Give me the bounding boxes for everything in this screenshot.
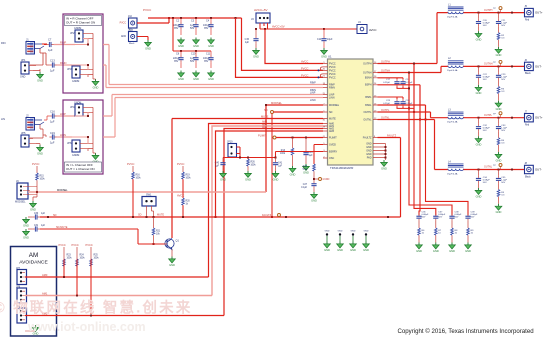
header JP6 (LINN select)	[67, 140, 93, 157]
U1 left pin stubs	[323, 64, 328, 159]
svg-text:15µH 0.4A: 15µH 0.4A	[447, 15, 458, 18]
svg-text:1µF: 1µF	[50, 120, 55, 124]
wire MUTE lower run	[40, 226, 165, 244]
svg-text:OUTPL: OUTPL	[381, 109, 390, 112]
svg-text:SD: SD	[329, 111, 333, 114]
test point OUTNH	[493, 60, 502, 66]
svg-text:www.iot-online.com: www.iot-online.com	[27, 320, 146, 334]
svg-text:OUTPH: OUTPH	[381, 61, 390, 64]
svg-text:GND: GND	[364, 231, 369, 233]
AVCC net label at R20	[177, 194, 184, 198]
PVCC label pullup AM2	[86, 243, 93, 247]
svg-text:50V: 50V	[483, 130, 487, 132]
wire MUTE from Q1 collector	[172, 115, 323, 239]
connector J5 OUT+	[525, 6, 543, 21]
ground below C3	[193, 38, 200, 48]
banana jack J11 GND input	[121, 29, 137, 46]
svg-text:JP7: JP7	[16, 267, 21, 270]
svg-text:R23: R23	[67, 255, 72, 257]
wire snubber feed 4	[426, 120, 469, 216]
svg-text:C7: C7	[48, 38, 52, 42]
svg-text:1µF: 1µF	[50, 141, 55, 145]
ground inside box R	[92, 79, 99, 89]
svg-text:GND: GND	[351, 231, 356, 233]
capacitor C22 0.68uF	[476, 66, 490, 85]
wire snubber feed 1	[419, 120, 420, 216]
header JP10 oscillator select	[227, 141, 237, 158]
resistor R7 snubber	[435, 228, 442, 243]
svg-text:R16: R16	[136, 175, 141, 177]
wire AM0 to U1	[209, 121, 324, 277]
AVCC +5V net label	[254, 8, 268, 12]
wire PLIMIT to U1	[276, 137, 323, 139]
ground inside AM box	[25, 325, 39, 335]
svg-text:AM3: AM3	[329, 130, 335, 133]
svg-text:100k: 100k	[136, 178, 142, 180]
wire LINP bundle	[103, 92, 323, 116]
capacitor C3 1uF 50V	[190, 18, 199, 35]
header JP7 AM0	[16, 267, 27, 285]
svg-text:C31: C31	[34, 225, 39, 227]
test point OUTNL	[493, 164, 502, 170]
capacitor C2 220uF 35V	[173, 18, 184, 35]
wire RINN C13 to JP3	[57, 61, 72, 65]
svg-text:LINP: LINP	[310, 92, 316, 95]
PVCC net label top	[143, 8, 152, 12]
gnd post TP4	[363, 231, 370, 252]
svg-text:FAULTZ: FAULTZ	[387, 134, 397, 137]
gnd post TP3	[350, 231, 357, 252]
op-amp U1 TPA3118D2 body	[328, 55, 374, 171]
wire PVCC to U1 pin 10	[242, 18, 324, 71]
ground below R8	[449, 243, 456, 253]
svg-text:100k: 100k	[280, 153, 286, 155]
ground below R2	[495, 47, 502, 57]
capacitor C19 1uF	[49, 131, 57, 145]
resistor R6 snubber	[418, 228, 425, 243]
wire AM1 run	[25, 292, 212, 297]
svg-text:1µF: 1µF	[48, 48, 53, 52]
svg-text:PVCC: PVCC	[32, 162, 40, 166]
svg-text:PVCC: PVCC	[72, 243, 79, 247]
svg-text:PVCC: PVCC	[177, 162, 185, 166]
wire BSPL riser	[413, 63, 415, 114]
wire AVCC to U1 pin 9	[264, 28, 323, 64]
svg-text:GNDM: GNDM	[72, 154, 79, 157]
svg-text:C13: C13	[50, 59, 55, 63]
svg-text:PLIMIT: PLIMIT	[258, 134, 267, 138]
PVCC net label at J9	[32, 162, 40, 166]
wire OUTPL filter row	[464, 114, 525, 119]
ground below C22	[475, 85, 482, 95]
U1 right pin names	[363, 62, 372, 159]
svg-text:C41: C41	[278, 163, 283, 165]
connector J6 OUT-	[525, 60, 542, 75]
wire SD riser to bottom line	[271, 114, 273, 219]
svg-text:50V: 50V	[190, 27, 195, 30]
ground below R6	[416, 243, 423, 253]
wire JP4 to LINP node	[75, 113, 89, 117]
svg-text:PVCC: PVCC	[301, 74, 309, 78]
svg-text:BSNL: BSNL	[365, 104, 372, 107]
svg-text:BSNH: BSNH	[365, 77, 372, 80]
capacitor C33 1uF	[496, 118, 508, 138]
header JP4 (LINP select)	[70, 102, 93, 117]
ground below R4	[495, 152, 502, 162]
svg-text:C40: C40	[215, 163, 220, 165]
ground below R3	[495, 101, 502, 111]
svg-text:AVCC: AVCC	[177, 194, 184, 198]
svg-text:AVCC+5V: AVCC+5V	[272, 25, 285, 29]
gnd post TP1	[324, 231, 331, 252]
resistor R24	[76, 247, 86, 295]
svg-text:SD-MUTE: SD-MUTE	[56, 226, 68, 229]
capacitor C20 0.68uF	[476, 13, 490, 32]
wire BSNL stub	[378, 105, 427, 121]
resistor R14 on GVDD	[303, 145, 323, 182]
test point GVDD	[314, 178, 330, 182]
wire OUTNH filter row	[464, 63, 525, 68]
svg-text:OUTNH: OUTNH	[363, 71, 372, 74]
svg-text:MODSEL: MODSEL	[329, 104, 340, 107]
svg-text:© 物联网在线 智慧.创未来: © 物联网在线 智慧.创未来	[0, 299, 193, 317]
wire RINP jack to C7	[44, 44, 47, 46]
capacitor C37 snubber	[433, 212, 446, 229]
capacitor C41 1uF	[273, 158, 283, 172]
svg-text:AVCC: AVCC	[301, 60, 308, 64]
capacitor C38 snubber	[449, 212, 462, 229]
wire JP6 to LINN node	[72, 136, 89, 143]
svg-text:MUTE: MUTE	[329, 117, 336, 120]
svg-text:OUT = L Channel ON: OUT = L Channel ON	[66, 167, 95, 171]
svg-text:R15: R15	[40, 176, 45, 178]
capacitor C26 on PLIMIT	[303, 138, 313, 165]
svg-text:JP6: JP6	[67, 141, 72, 145]
PVCC second row feed wire	[173, 18, 211, 52]
svg-text:SD: SD	[264, 108, 268, 112]
resistor R21	[152, 217, 161, 245]
svg-text:OUT-: OUT-	[535, 168, 542, 172]
test point OUTPL	[493, 112, 502, 118]
wire OUTNL to row4	[378, 117, 448, 170]
svg-text:Black: Black	[525, 73, 531, 75]
svg-text:OUTNH: OUTNH	[484, 63, 493, 66]
wire BSPH stub	[378, 85, 422, 121]
capacitor C4 100uF 35V	[203, 18, 214, 35]
svg-text:1µF: 1µF	[245, 41, 250, 44]
ferrite bead FB1 AVCC	[324, 20, 377, 34]
svg-text:0.22µF: 0.22µF	[383, 82, 391, 84]
svg-text:35V: 35V	[174, 27, 179, 30]
ground below C34	[475, 188, 482, 198]
ground below R7	[432, 243, 439, 253]
svg-text:C14: C14	[317, 38, 322, 41]
PVCC pin tie jogs	[318, 67, 324, 79]
svg-text:SD: SD	[53, 214, 57, 217]
svg-text:15µH 0.4A: 15µH 0.4A	[447, 121, 458, 124]
svg-text:C27: C27	[303, 184, 308, 186]
svg-text:50V: 50V	[483, 182, 487, 184]
ground below R9	[465, 243, 472, 253]
svg-text:50V: 50V	[501, 25, 505, 27]
purple option box R channel	[63, 14, 103, 93]
inductor L2 15uH	[447, 57, 464, 72]
header JP1 (input gnd)	[20, 58, 33, 79]
svg-text:LIN: LIN	[1, 117, 5, 121]
wire JP10 to branch rail	[223, 147, 276, 159]
ground below C11	[208, 71, 215, 81]
svg-text:PVCC: PVCC	[329, 76, 336, 79]
resistor R5 3.3	[497, 190, 505, 204]
svg-text:GNDM: GNDM	[74, 27, 81, 30]
svg-text:PVCC: PVCC	[120, 23, 127, 25]
svg-text:AM1: AM1	[42, 292, 48, 296]
svg-text:MUTE: MUTE	[261, 115, 269, 119]
svg-text:LINN: LINN	[329, 96, 335, 99]
svg-text:OUTNL: OUTNL	[381, 117, 390, 120]
ground at MUTE cap	[23, 229, 33, 239]
svg-text:JP2: JP2	[70, 31, 75, 35]
svg-text:100k: 100k	[94, 258, 100, 260]
capacitor C30 on SD line	[32, 213, 56, 220]
svg-text:OUT+: OUT+	[535, 116, 543, 120]
header JP9 AM2	[16, 305, 27, 323]
svg-text:MODSEL: MODSEL	[271, 101, 283, 105]
wire J11 to gnd	[137, 37, 148, 41]
inductor L1 15uH	[447, 3, 464, 18]
capacitor C10 1uF 50V	[190, 51, 199, 68]
option box R note text	[65, 16, 102, 26]
wire RINN branch down to C13	[43, 53, 46, 65]
wire J3 to AVCC rail	[260, 23, 324, 29]
junction on AVCC rail	[255, 28, 325, 30]
svg-text:OUTPL: OUTPL	[364, 111, 373, 114]
svg-text:35V: 35V	[204, 27, 209, 30]
svg-text:Black: Black	[129, 43, 135, 45]
svg-text:100k: 100k	[40, 179, 46, 181]
wire jack J2 sleeve to JP5 / C19	[30, 125, 46, 139]
test point FAULTZ	[262, 214, 281, 218]
capacitor C31 on MUTE line	[32, 225, 45, 232]
inductor L4 15uH	[447, 160, 464, 175]
ground below R13	[289, 166, 296, 176]
svg-text:R25: R25	[94, 255, 99, 257]
capacitor C11 100uF 35V	[203, 51, 214, 68]
svg-text:FAULTZ: FAULTZ	[262, 214, 272, 217]
resistor R25	[90, 247, 100, 314]
wire AM0 run	[25, 273, 209, 278]
svg-text:OUT+: OUT+	[535, 11, 543, 15]
capacitor C40 1uF	[215, 158, 226, 172]
resistor R4 3.3	[497, 138, 505, 152]
ground below JP1	[33, 65, 43, 82]
svg-text:GNDM: GNDM	[72, 80, 79, 83]
U1 right pin stubs	[373, 64, 378, 158]
capacitor C16 1uF	[44, 110, 57, 124]
PVCC net label at Q1	[177, 162, 185, 166]
svg-text:OUTNL: OUTNL	[484, 166, 493, 169]
svg-text:PVCC: PVCC	[143, 8, 152, 12]
svg-text:JP1: JP1	[21, 58, 26, 62]
svg-text:Red: Red	[525, 19, 530, 21]
svg-text:OSC: OSC	[329, 157, 334, 160]
test point PLIMIT	[258, 134, 276, 139]
jack J1 switch contacts	[35, 44, 48, 49]
resistor R3 3.3	[497, 86, 505, 100]
svg-text:JP3: JP3	[67, 67, 72, 71]
svg-text:R26: R26	[251, 162, 256, 164]
PVCC bus wire top	[148, 17, 242, 19]
header JP8 AM1	[16, 285, 27, 303]
ground at J11	[145, 40, 152, 50]
svg-text:AM0: AM0	[42, 273, 48, 277]
inductor L3 15uH	[447, 109, 464, 124]
svg-text:U1: U1	[328, 55, 332, 59]
svg-text:PVCC: PVCC	[86, 243, 93, 247]
svg-text:PVCC: PVCC	[59, 243, 66, 247]
svg-text:R19: R19	[186, 175, 191, 177]
svg-text:15µH 0.4A: 15µH 0.4A	[447, 172, 458, 175]
connector J7 OUT+	[525, 111, 543, 126]
wire MODSEL riser to U1	[265, 101, 323, 192]
wire AM2 to U1	[224, 126, 323, 316]
wire snubber feed 2	[414, 112, 436, 216]
wire OUTNH to row2	[378, 66, 448, 72]
svg-text:GNDM: GNDM	[74, 102, 81, 105]
svg-text:1µF: 1µF	[41, 213, 46, 215]
resistor R15 pullup	[36, 166, 46, 186]
svg-text:R21: R21	[156, 231, 161, 233]
wire JP2 to RINP node	[75, 39, 89, 46]
svg-text:Black: Black	[525, 176, 531, 178]
svg-text:AVCC: AVCC	[369, 28, 377, 32]
audio jack J2 (L channel)	[1, 114, 35, 131]
vertical wire inside box R to gnd	[88, 33, 93, 79]
svg-text:1µF: 1µF	[215, 166, 220, 168]
svg-text:1µF: 1µF	[309, 155, 314, 157]
capacitor C34 0.68uF	[476, 170, 490, 189]
wire OUTNL filter row	[464, 166, 525, 171]
svg-text:OUTPL: OUTPL	[484, 114, 493, 117]
svg-text:AM: AM	[29, 252, 38, 259]
resistor R20	[182, 198, 191, 218]
ground at SD cap	[23, 217, 33, 227]
wire MODSEL run	[28, 189, 266, 193]
resistor R16 pullup	[132, 166, 142, 218]
svg-text:50V: 50V	[483, 25, 487, 27]
svg-text:50V: 50V	[422, 217, 426, 219]
ground below C32	[475, 136, 482, 146]
svg-text:RIN: RIN	[1, 41, 6, 45]
bootstrap capacitors C23 C24	[378, 97, 415, 108]
svg-text:1µF: 1µF	[278, 166, 283, 168]
capacitor C14 10uF on AVCC	[317, 29, 333, 48]
svg-text:15µH 0.4A: 15µH 0.4A	[447, 69, 458, 72]
svg-text:Red: Red	[525, 125, 530, 127]
svg-text:10µF: 10µF	[327, 38, 333, 41]
option box L note text	[65, 162, 102, 172]
wire OUTPH to row1	[378, 13, 448, 64]
wire AM2 run	[25, 312, 224, 317]
svg-text:100k: 100k	[251, 165, 257, 167]
svg-text:RINN: RINN	[329, 86, 335, 89]
svg-text:C30: C30	[34, 213, 39, 215]
ground below R26	[245, 171, 252, 181]
ground inside box L	[92, 153, 99, 163]
wire LINN C19 to JP6	[57, 133, 72, 137]
wire OUTPH filter row	[464, 9, 525, 14]
connector J8 OUT-	[525, 163, 542, 178]
ground below J9	[30, 201, 37, 211]
svg-text:MODSEL: MODSEL	[15, 201, 26, 204]
wire snubber feed 3	[409, 108, 452, 215]
capacitor C21 1uF	[496, 13, 508, 33]
capacitor C8 220uF 35V	[173, 51, 184, 68]
transistor Q1	[165, 239, 180, 250]
header JP5 (L gnd)	[21, 131, 36, 147]
wire JP3 to RINN node	[72, 64, 89, 69]
capacitor C35 1uF	[496, 170, 508, 190]
wire SD to U1	[274, 111, 324, 113]
svg-text:JP10: JP10	[227, 141, 233, 144]
PVCC net label at SW1	[127, 162, 135, 166]
wire RINP bundle	[103, 45, 323, 85]
svg-text:C16: C16	[50, 110, 55, 114]
resistor R23	[63, 247, 73, 276]
svg-text:1µF: 1µF	[41, 225, 46, 227]
svg-text:PVCC: PVCC	[301, 67, 309, 71]
svg-text:50V: 50V	[438, 217, 442, 219]
svg-text:GND: GND	[121, 36, 126, 38]
svg-text:MODSEL: MODSEL	[57, 189, 68, 192]
AM avoidance box	[11, 247, 57, 337]
svg-text:35V: 35V	[174, 60, 179, 63]
svg-text:R20: R20	[186, 201, 191, 203]
svg-text:50V: 50V	[501, 130, 505, 132]
bootstrap capacitors C17 C18	[378, 78, 414, 89]
PVCC label pullup AM1	[72, 243, 79, 247]
vertical wire inside box L to gnd	[88, 107, 93, 153]
svg-text:TPA3118D2DAPR: TPA3118D2DAPR	[330, 166, 353, 170]
resistor R9 snubber	[467, 228, 474, 243]
ground below Q1	[169, 257, 176, 267]
purple option box L channel	[63, 100, 103, 174]
svg-text:100k: 100k	[186, 178, 192, 180]
svg-text:BSPH: BSPH	[365, 84, 372, 87]
svg-text:OUTPH: OUTPH	[363, 62, 372, 65]
wire FAULTZ loop	[40, 134, 401, 218]
net label SD on main line	[138, 214, 164, 217]
ground below C8	[178, 71, 185, 81]
svg-text:OUTPH: OUTPH	[484, 9, 493, 12]
wire AM3 riser	[215, 131, 324, 218]
svg-text:FAULTZ: FAULTZ	[363, 136, 372, 139]
ground below U1 gnd pins	[381, 160, 388, 170]
ground below C4	[208, 38, 215, 48]
ground below C2	[178, 38, 185, 48]
wire J10 to PVCC bus	[137, 17, 170, 23]
svg-text:RINP: RINP	[310, 82, 316, 85]
svg-text:JP4: JP4	[70, 105, 75, 109]
wire OUTPL to row3	[378, 109, 448, 118]
svg-text:50V: 50V	[501, 182, 505, 184]
capacitor C7 1uF	[46, 38, 54, 53]
svg-text:35V: 35V	[204, 60, 209, 63]
ground below C41	[272, 171, 279, 181]
capacitor C32 0.68uF	[476, 118, 490, 137]
svg-text:50V: 50V	[471, 217, 475, 219]
svg-text:AVCC+5V: AVCC+5V	[254, 8, 268, 12]
